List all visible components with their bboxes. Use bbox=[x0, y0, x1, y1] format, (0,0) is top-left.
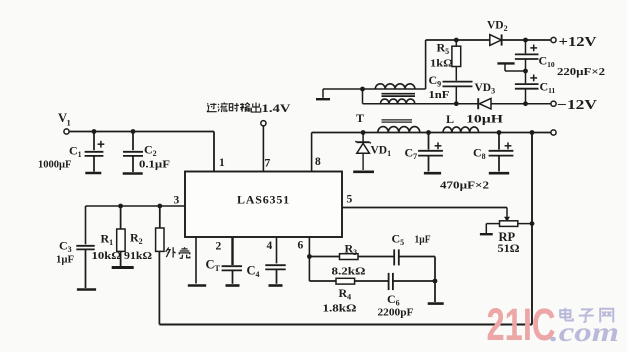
svg-text:R4: R4 bbox=[339, 286, 352, 302]
svg-text:L: L bbox=[446, 112, 454, 126]
svg-text:2200pF: 2200pF bbox=[378, 307, 414, 319]
svg-text:470µF×2: 470µF×2 bbox=[440, 180, 490, 192]
svg-text:1µF: 1µF bbox=[56, 255, 74, 266]
svg-text:VD2: VD2 bbox=[487, 20, 508, 34]
svg-text:R5: R5 bbox=[437, 41, 450, 57]
svg-text:1.8kΩ: 1.8kΩ bbox=[323, 303, 357, 315]
svg-text:6: 6 bbox=[298, 240, 304, 252]
svg-text:1: 1 bbox=[219, 157, 225, 169]
svg-text:7: 7 bbox=[265, 158, 271, 170]
svg-text:4: 4 bbox=[267, 240, 273, 252]
svg-text:2: 2 bbox=[216, 241, 222, 253]
svg-text:220µF×2: 220µF×2 bbox=[557, 66, 606, 78]
svg-text:21IC: 21IC bbox=[487, 299, 556, 350]
svg-text:C4: C4 bbox=[247, 264, 260, 280]
svg-text:C7: C7 bbox=[405, 146, 418, 162]
svg-text:8: 8 bbox=[315, 156, 321, 168]
svg-text:1.4V: 1.4V bbox=[262, 103, 292, 115]
svg-text:+12V: +12V bbox=[559, 35, 597, 50]
svg-text:CT: CT bbox=[206, 258, 221, 274]
svg-text:1: 1 bbox=[67, 118, 71, 128]
svg-text:1000µF: 1000µF bbox=[38, 160, 71, 171]
svg-text:51Ω: 51Ω bbox=[498, 241, 520, 255]
svg-text:10kΩ: 10kΩ bbox=[92, 251, 122, 262]
svg-text:C2: C2 bbox=[144, 143, 157, 159]
svg-text:R1: R1 bbox=[101, 232, 114, 248]
svg-text:C1: C1 bbox=[69, 144, 82, 160]
svg-text:−12V: −12V bbox=[557, 98, 597, 113]
svg-text:C10: C10 bbox=[539, 54, 555, 70]
svg-text:C3: C3 bbox=[59, 239, 72, 255]
svg-text:3: 3 bbox=[174, 195, 180, 207]
svg-text:1µF: 1µF bbox=[415, 235, 431, 246]
svg-text:0.1µF: 0.1µF bbox=[139, 160, 170, 171]
svg-text:5: 5 bbox=[347, 194, 353, 206]
svg-text:C8: C8 bbox=[473, 146, 486, 162]
svg-text:1kΩ: 1kΩ bbox=[430, 59, 453, 70]
svg-text:1nF: 1nF bbox=[429, 90, 450, 101]
svg-text:C11: C11 bbox=[540, 80, 556, 96]
svg-text:C5: C5 bbox=[392, 232, 405, 248]
svg-text:R2: R2 bbox=[130, 231, 143, 247]
svg-text:8.2kΩ: 8.2kΩ bbox=[332, 266, 366, 278]
svg-text:R3: R3 bbox=[345, 242, 358, 258]
svg-text:.com: .com bbox=[550, 317, 619, 347]
svg-text:VD3: VD3 bbox=[475, 82, 496, 96]
svg-text:10µH: 10µH bbox=[466, 114, 503, 126]
svg-text:VD1: VD1 bbox=[371, 145, 392, 159]
svg-text:C9: C9 bbox=[429, 73, 442, 89]
svg-text:91kΩ: 91kΩ bbox=[124, 251, 152, 262]
svg-text:LAS6351: LAS6351 bbox=[237, 193, 290, 207]
svg-text:C6: C6 bbox=[387, 292, 400, 308]
svg-text:T: T bbox=[356, 111, 364, 125]
